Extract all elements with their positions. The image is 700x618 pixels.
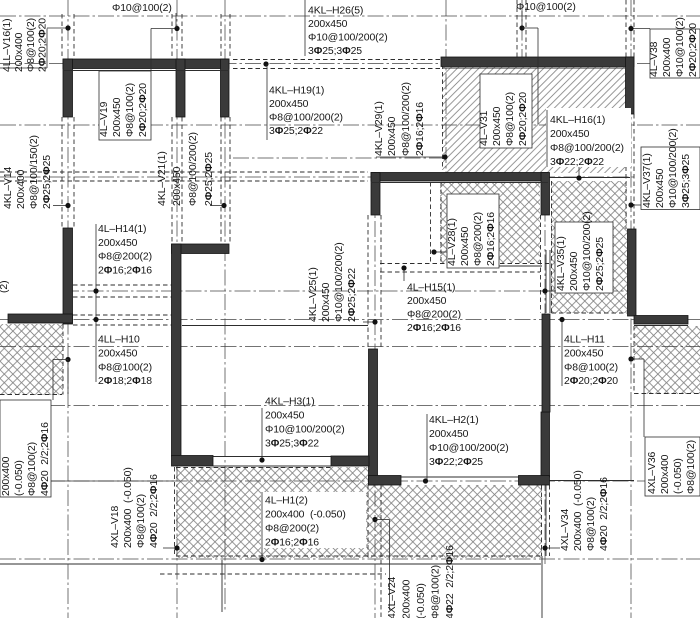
leader 4L-V38 bbox=[631, 28, 650, 30]
svg-text:3Φ22;2Φ25: 3Φ22;2Φ25 bbox=[429, 457, 483, 468]
wall: top-left room right bbox=[221, 59, 230, 117]
svg-text:4Φ22 2/2;2Φ16: 4Φ22 2/2;2Φ16 bbox=[445, 545, 456, 618]
beam 4L-H14 edges y=285/297 bbox=[73, 284, 172, 286]
solid drop line x=542 bottom bbox=[541, 556, 543, 618]
vertical beam dashes x=174/182 bottom (hatch left boundary) bbox=[174, 467, 176, 556]
svg-text:Φ8@100/200(2): Φ8@100/200(2) bbox=[550, 143, 624, 154]
svg-text:Φ10@100/200(2): Φ10@100/200(2) bbox=[308, 33, 388, 44]
svg-text:200x450: 200x450 bbox=[98, 238, 138, 249]
thin top line of H3 y=177.5 bbox=[549, 177, 630, 179]
leader left hatch bbox=[65, 357, 70, 362]
grid line V2 (x=177) bbox=[176, 0, 178, 618]
vertical beam dashes x=221/230 below room bbox=[220, 117, 222, 244]
leader 4LL-H11 bbox=[561, 320, 563, 386]
svg-text:4KL–V29(1): 4KL–V29(1) bbox=[374, 101, 385, 156]
grid line V7 (x=545) bbox=[544, 181, 546, 564]
hatch region H2 cross (4L-V28 slab) bbox=[440, 182, 540, 263]
svg-text:Φ8@100(2): Φ8@100(2) bbox=[431, 565, 442, 618]
wall: top-left room left bbox=[63, 59, 73, 117]
hatch H2 bottom solid bbox=[493, 265, 542, 267]
beam label 4XL-V24 (rotated) bbox=[387, 545, 456, 618]
svg-text:4KL–H2(1): 4KL–H2(1) bbox=[429, 415, 479, 426]
solid segment y=480.5 right bbox=[549, 480, 634, 482]
svg-text:200x450: 200x450 bbox=[387, 116, 398, 156]
vertical dash x=442.5 (H1 left boundary) bbox=[442, 57, 444, 170]
grid line K (y=559) bbox=[0, 558, 700, 560]
vertical beam dashes x=221/230 top bbox=[220, 14, 222, 59]
door line 4KL-H3 room bottom y=456.5/466 bbox=[213, 456, 331, 458]
svg-text:4XL–V34: 4XL–V34 bbox=[560, 508, 571, 551]
beam label 4KL-H16(1) bbox=[550, 115, 624, 168]
beam label 4L-H15(1) bbox=[407, 283, 461, 335]
beam 4LL-H10 edges y=315/325 bbox=[73, 314, 172, 316]
wall: center room right (x=541) bbox=[541, 412, 550, 477]
svg-text:4LL–H10: 4LL–H10 bbox=[98, 335, 140, 346]
wall: x=542 mid segment bbox=[542, 314, 550, 412]
leader phi10 top-right bbox=[521, 11, 523, 28]
svg-text:Φ8@200(2): Φ8@200(2) bbox=[473, 212, 484, 266]
svg-text:Φ8@200(2): Φ8@200(2) bbox=[265, 524, 319, 535]
svg-text:200x450: 200x450 bbox=[655, 168, 666, 208]
leader 4KL-V21 bbox=[210, 205, 224, 207]
wall: top-left room top beam bbox=[63, 59, 229, 69]
leader 4KL-H2 bbox=[426, 414, 428, 481]
svg-text:Φ8@100/200(2): Φ8@100/200(2) bbox=[269, 113, 343, 124]
svg-text:Φ10@100/200(2): Φ10@100/200(2) bbox=[334, 242, 345, 322]
svg-text:200x400 (-0.050): 200x400 (-0.050) bbox=[265, 510, 346, 521]
svg-text:200x400 (-0.050): 200x400 (-0.050) bbox=[573, 470, 584, 551]
grid line I (y=405.5) bbox=[0, 405, 700, 407]
svg-text:Φ8@100(2): Φ8@100(2) bbox=[586, 497, 597, 551]
svg-text:3Φ25;2Φ22: 3Φ25;2Φ22 bbox=[269, 126, 323, 137]
wall: bottom-left horizontal (y=455) bbox=[172, 456, 214, 467]
solid line under strip (y=564) bbox=[0, 563, 541, 565]
svg-text:4Φ20 2/2;2Φ16: 4Φ20 2/2;2Φ16 bbox=[40, 422, 51, 496]
svg-text:200x450: 200x450 bbox=[569, 251, 580, 291]
svg-text:(-0.050): (-0.050) bbox=[416, 583, 427, 618]
beam label 4LL-H11 bbox=[564, 335, 618, 388]
hatch region H5 cross (bottom-right slab) bbox=[634, 326, 700, 394]
wall: hatch right wall upper bbox=[626, 57, 635, 114]
svg-text:4KL–H26(5): 4KL–H26(5) bbox=[308, 6, 363, 17]
svg-text:4KL–V35(1): 4KL–V35(1) bbox=[556, 236, 567, 291]
hatch region H5 white notch bbox=[631, 359, 644, 394]
grid line V3 (x=225) bbox=[224, 0, 226, 612]
svg-text:200x450: 200x450 bbox=[98, 349, 138, 360]
svg-text:3Φ25;3Φ25: 3Φ25;3Φ25 bbox=[308, 46, 362, 57]
svg-text:Φ8@100(2): Φ8@100(2) bbox=[136, 494, 147, 548]
svg-text:Φ10@100/200(2): Φ10@100/200(2) bbox=[668, 128, 679, 208]
dashed line y=574 bbox=[160, 573, 386, 575]
svg-text:Φ10@100(2): Φ10@100(2) bbox=[675, 17, 686, 77]
thin line under top-left beam bbox=[64, 70, 229, 72]
leader 4XL-V24 bbox=[372, 517, 377, 522]
svg-text:200x450: 200x450 bbox=[429, 429, 469, 440]
svg-text:Φ8@100(2): Φ8@100(2) bbox=[686, 440, 697, 494]
svg-text:4L–H15(1): 4L–H15(1) bbox=[407, 283, 455, 294]
svg-text:200x450: 200x450 bbox=[112, 97, 123, 137]
svg-text:200x450: 200x450 bbox=[407, 296, 447, 307]
vertical dashes x=626/634 middle bbox=[625, 114, 627, 229]
leader 4XL-V36 bbox=[628, 356, 633, 361]
svg-text:4Φ20 2/2;2Φ16: 4Φ20 2/2;2Φ16 bbox=[599, 477, 610, 551]
svg-text:4XL–V36: 4XL–V36 bbox=[647, 451, 658, 494]
grid line D (y=158) bbox=[233, 157, 446, 159]
wall: 4L-H14 room top bbox=[172, 244, 230, 254]
hatch region H1 diagonal (4L-V31 slab) bbox=[443, 67, 626, 173]
svg-text:4KL–H19(1): 4KL–H19(1) bbox=[269, 86, 324, 97]
svg-text:2Φ16;2Φ16: 2Φ16;2Φ16 bbox=[415, 102, 426, 156]
beam label 4LL-H10 bbox=[98, 335, 152, 388]
hatch region H6a cross (bottom strip left) bbox=[176, 467, 368, 558]
beam label 4L-V31 (rotated) bbox=[479, 92, 529, 146]
svg-text:200x450: 200x450 bbox=[308, 19, 348, 30]
grid line V8 (x=631) bbox=[630, 0, 632, 618]
svg-text:200x400: 200x400 bbox=[402, 579, 413, 618]
svg-text:2Φ20;2Φ20: 2Φ20;2Φ20 bbox=[138, 83, 149, 137]
wall: right horizontal (y=316) bbox=[634, 316, 688, 325]
svg-text:2Φ20;2Φ20: 2Φ20;2Φ20 bbox=[564, 376, 618, 387]
svg-text:200x400: 200x400 bbox=[660, 454, 671, 494]
svg-text:Φ8@200(2): Φ8@200(2) bbox=[98, 252, 152, 263]
leader 4KL-V35 bbox=[545, 290, 556, 292]
svg-text:4KL–V25(1): 4KL–V25(1) bbox=[308, 267, 319, 322]
leader 4L-H15 bbox=[403, 268, 405, 281]
beam label 4KL-V25(1) (rotated) bbox=[308, 242, 358, 322]
wall: left horizontal wing bbox=[8, 314, 73, 323]
svg-text:4KL–V21(1): 4KL–V21(1) bbox=[157, 151, 168, 206]
wall: top-left room mid stub bbox=[176, 59, 185, 117]
box 4XL-V36 bbox=[645, 437, 700, 496]
box 4L-H1 bbox=[261, 492, 366, 548]
solid drop line x=222 bottom bbox=[221, 560, 223, 612]
beam label bottom-left 200x400 (rotated) bbox=[1, 422, 51, 496]
leader 4KL-H3 bbox=[261, 408, 263, 460]
svg-text:4LL–V16(1): 4LL–V16(1) bbox=[2, 18, 13, 72]
svg-text:200x450: 200x450 bbox=[564, 349, 604, 360]
wall: center room bottom (y=476) bbox=[369, 476, 402, 486]
svg-text:200x400: 200x400 bbox=[16, 169, 27, 209]
beam label 4L-H14(1) bbox=[98, 224, 152, 276]
beam edge dashes: top beam center span y=59.5/68.5 bbox=[233, 59, 441, 61]
thin line under hatch top beam bbox=[443, 67, 625, 69]
beam label 4KL-H2(1) bbox=[429, 415, 509, 468]
grid line V6 (x=522) bbox=[521, 0, 523, 59]
vertical dashes x=626/634 top bbox=[625, 0, 627, 59]
wall: mid beam (y=173) bbox=[371, 173, 548, 182]
box 4L-V28 bbox=[447, 194, 499, 268]
svg-text:Φ8@100(2): Φ8@100(2) bbox=[27, 442, 38, 496]
svg-text:200x400: 200x400 bbox=[1, 456, 12, 496]
wall: mid vertical long (x=172) bbox=[172, 244, 182, 456]
thin line under right wall y=325.5 bbox=[634, 325, 688, 327]
svg-text:2Φ18;2Φ18: 2Φ18;2Φ18 bbox=[98, 376, 152, 387]
svg-text:Φ10@100(2): Φ10@100(2) bbox=[516, 2, 576, 13]
svg-text:Φ8@100/200(2): Φ8@100/200(2) bbox=[188, 132, 199, 206]
svg-text:Φ8@100(2): Φ8@100(2) bbox=[564, 363, 618, 374]
hatch region H6b cross (bottom strip right) bbox=[368, 485, 542, 558]
svg-text:2Φ25;2Φ25: 2Φ25;2Φ25 bbox=[42, 155, 53, 209]
svg-text:Φ8@100/200(2): Φ8@100/200(2) bbox=[401, 82, 412, 156]
beam label 4LL-V16 (rotated) bbox=[2, 18, 49, 72]
vertical beam dashes x=172/182 middle bbox=[171, 117, 173, 244]
box 4KL-V37 bbox=[641, 147, 700, 210]
H7 boundary dashes bbox=[0, 394, 62, 396]
svg-text:4L–V28(1): 4L–V28(1) bbox=[447, 218, 458, 266]
svg-text:4XL–V18: 4XL–V18 bbox=[110, 505, 121, 548]
box 4KL-H16 bbox=[546, 108, 631, 167]
svg-text:Φ8@100/150(2): Φ8@100/150(2) bbox=[29, 135, 40, 209]
grid line F (y=291) bbox=[63, 290, 634, 292]
H5 boundary dashes bbox=[633, 326, 635, 394]
beam label 4XL-V34 (rotated) bbox=[560, 470, 610, 551]
beam label (2) tail (rotated) bbox=[0, 281, 10, 293]
beam label 4L-V38 (rotated) bbox=[649, 17, 699, 77]
beam label 4XL-V36 (rotated) bbox=[647, 440, 697, 494]
svg-text:Φ8@200(2): Φ8@200(2) bbox=[407, 310, 461, 321]
beam label 4KL-V29(1) (rotated) bbox=[374, 82, 426, 156]
svg-text:2Φ20;2Φ20: 2Φ20;2Φ20 bbox=[518, 92, 529, 146]
svg-text:Φ10@100(2): Φ10@100(2) bbox=[112, 3, 172, 14]
grid line A (y=16) bbox=[0, 15, 700, 17]
grid line C (y=125) bbox=[0, 124, 700, 126]
thin line under mid beam bbox=[371, 182, 548, 184]
svg-text:4L–V31: 4L–V31 bbox=[479, 110, 490, 146]
hatch region H3 cross (4KL-V35 slab) bbox=[551, 181, 627, 313]
beam label 4L-V19 (rotated) bbox=[99, 83, 149, 137]
vertical dashes x=517/526 top bbox=[516, 0, 518, 59]
wall: center room bottom right wing bbox=[519, 476, 550, 486]
grid line G (y=319.5) bbox=[0, 319, 700, 321]
svg-text:4KL–H3(1): 4KL–H3(1) bbox=[265, 397, 315, 408]
door line 4KL-H2 room bottom y=477 bbox=[401, 476, 519, 478]
svg-text:Φ10@100/200(2): Φ10@100/200(2) bbox=[265, 425, 345, 436]
beam label 4KL-V21(1) (rotated) bbox=[157, 132, 215, 206]
leader 4KL-H16 bbox=[578, 167, 580, 178]
wall: stub below mid beam left bbox=[371, 173, 380, 216]
leader bottom-left box bbox=[51, 480, 174, 482]
beam label 4KL-H19(1) bbox=[269, 86, 343, 138]
svg-text:4LL–H11: 4LL–H11 bbox=[564, 335, 605, 346]
box bottom-left 200x400 bbox=[0, 400, 51, 497]
grid line J (y=481) bbox=[0, 480, 700, 482]
grid line H (y=346.5) bbox=[0, 346, 700, 348]
solid shaft lines x=546/550 bbox=[545, 250, 547, 313]
leader 4KL-V37 bbox=[631, 204, 641, 206]
leader phi10 top-left bbox=[175, 13, 177, 28]
svg-text:Φ8@100(2): Φ8@100(2) bbox=[26, 18, 37, 72]
grid line V4 (x=375) bbox=[374, 172, 376, 618]
svg-text:4KL–V37(1): 4KL–V37(1) bbox=[642, 153, 653, 208]
svg-text:200x400 (-0.050): 200x400 (-0.050) bbox=[123, 467, 134, 548]
leader 4L-H14 dots bbox=[95, 224, 97, 382]
svg-text:(2): (2) bbox=[0, 281, 10, 293]
svg-text:3Φ25;3Φ25: 3Φ25;3Φ25 bbox=[681, 154, 692, 208]
svg-text:200x400: 200x400 bbox=[14, 32, 25, 72]
svg-text:Φ8@100(2): Φ8@100(2) bbox=[505, 92, 516, 146]
svg-text:200x450: 200x450 bbox=[492, 106, 503, 146]
svg-text:200x450: 200x450 bbox=[321, 282, 332, 322]
text border 4KL-H26 bbox=[304, 0, 306, 56]
svg-text:Φ8@100(2): Φ8@100(2) bbox=[98, 363, 152, 374]
beam 4L-H15 edges y=263.5/272 bbox=[380, 263, 549, 265]
svg-text:(-0.050): (-0.050) bbox=[673, 458, 684, 494]
vertical dash x=540.5 (H2 right boundary) bbox=[540, 215, 542, 313]
svg-text:Φ8@100(2): Φ8@100(2) bbox=[125, 83, 136, 137]
leader 4L-V28 bbox=[434, 251, 447, 253]
box 4L-V38 bbox=[650, 29, 700, 78]
leader 4L-H1 bbox=[261, 492, 263, 559]
svg-text:4L–H1(2): 4L–H1(2) bbox=[265, 496, 308, 507]
svg-text:Φ10@100/200(2): Φ10@100/200(2) bbox=[429, 443, 509, 454]
svg-text:2Φ20;2Φ20: 2Φ20;2Φ20 bbox=[688, 23, 699, 77]
room top thin line y=325 bbox=[182, 325, 368, 327]
svg-text:2Φ16;2Φ16: 2Φ16;2Φ16 bbox=[486, 212, 497, 266]
wall: hatch top beam (y=57) bbox=[441, 57, 634, 67]
leader 4XL-V34 bbox=[545, 547, 560, 549]
grid line E (y=177) bbox=[0, 176, 634, 178]
svg-text:2Φ16;2Φ16: 2Φ16;2Φ16 bbox=[98, 265, 152, 276]
beam label 4KL-H3(1) bbox=[265, 397, 345, 450]
svg-text:4Φ20 2/2;2Φ16: 4Φ20 2/2;2Φ16 bbox=[149, 474, 160, 548]
svg-text:3Φ25;3Φ22: 3Φ25;3Φ22 bbox=[265, 439, 319, 450]
wall: left wall lower segment bbox=[63, 228, 73, 324]
leader top-left box bbox=[47, 27, 68, 29]
svg-text:200x450: 200x450 bbox=[460, 226, 471, 266]
svg-text:3Φ22;2Φ22: 3Φ22;2Φ22 bbox=[550, 157, 604, 168]
beam label 4L-V28(1) (rotated) bbox=[447, 212, 497, 266]
box 4L-V19 bbox=[99, 71, 151, 140]
vertical dash x=551.5 (H3 left boundary) bbox=[551, 181, 553, 313]
svg-text:4L–H14(1): 4L–H14(1) bbox=[98, 224, 146, 235]
beam label 4XL-V18 (rotated) bbox=[110, 467, 160, 548]
vertical beam dashes x=368/381 bbox=[367, 215, 369, 350]
WALLS bbox=[8, 57, 688, 485]
beam edges y=172/181 left span bbox=[0, 171, 368, 173]
beam label 4KL-V14 (rotated) bbox=[3, 135, 53, 209]
svg-text:200x450: 200x450 bbox=[550, 129, 590, 140]
svg-text:2Φ20;2Φ20: 2Φ20;2Φ20 bbox=[38, 18, 49, 72]
svg-text:2Φ25;2Φ25: 2Φ25;2Φ25 bbox=[595, 237, 606, 291]
vertical dashes x=430.5/441 (H2 left boundary) bbox=[430, 182, 432, 263]
svg-text:200x450: 200x450 bbox=[269, 99, 309, 110]
hoop label top-right bbox=[516, 2, 576, 13]
box top-left 4LL-V16 bbox=[0, 29, 47, 69]
svg-text:2Φ25;2Φ25: 2Φ25;2Φ25 bbox=[204, 152, 215, 206]
svg-text:4KL–V14: 4KL–V14 bbox=[3, 166, 14, 209]
svg-text:Φ10@100/200(2): Φ10@100/200(2) bbox=[582, 211, 593, 291]
beam label 4KL-V37(1) (rotated) bbox=[642, 128, 692, 208]
vertical beam dashes x=62/74 door gap bbox=[61, 117, 63, 228]
wall: center room bottom left wing bbox=[331, 456, 369, 466]
svg-text:2Φ25;2Φ22: 2Φ25;2Φ22 bbox=[347, 268, 358, 322]
box 4KL-V35 bbox=[555, 222, 613, 293]
svg-text:4L–V19: 4L–V19 bbox=[99, 101, 110, 137]
H6 boundary dashes bbox=[176, 467, 331, 469]
leader 4XL-V18 bbox=[163, 547, 177, 549]
svg-text:200x450: 200x450 bbox=[265, 411, 305, 422]
leader 4L-V19 bbox=[151, 28, 177, 30]
hatch region H7 cross (left slab) bbox=[0, 324, 63, 395]
svg-text:2Φ16;2Φ16: 2Φ16;2Φ16 bbox=[265, 538, 319, 549]
svg-text:2Φ16;2Φ16: 2Φ16;2Φ16 bbox=[407, 323, 461, 334]
leader 4KL-V29 bbox=[376, 156, 445, 158]
leader 4KL-V25 bbox=[363, 321, 375, 323]
vertical beam dashes x=172/182 top bbox=[171, 14, 173, 59]
hoop label top-left bbox=[112, 3, 172, 14]
grid line B (y=63.5) bbox=[0, 63, 700, 65]
box 4L-V31 bbox=[480, 74, 532, 148]
svg-text:200x450: 200x450 bbox=[172, 166, 183, 206]
beam label 4KL-V35(1) (rotated) bbox=[556, 211, 606, 291]
leader 4KL-H19 bbox=[263, 61, 268, 66]
svg-text:200x400: 200x400 bbox=[662, 37, 673, 77]
svg-text:4KL–H16(1): 4KL–H16(1) bbox=[550, 115, 605, 126]
leader 4KL-V14 bbox=[53, 205, 68, 207]
beam label 4KL-H26(5) bbox=[308, 6, 388, 58]
wall: center room left (x=368) bbox=[369, 349, 378, 485]
vertical beam dashes x=62/74 top bbox=[61, 14, 63, 59]
grid line V1 (x=68) bbox=[67, 0, 69, 618]
svg-text:4XL–V24: 4XL–V24 bbox=[387, 576, 398, 618]
wall: stub below mid beam right bbox=[541, 173, 550, 216]
beam label 4L-H1(2) bbox=[265, 496, 346, 549]
svg-text:4L–V38: 4L–V38 bbox=[649, 41, 660, 77]
wall: right wall lower (x=628) bbox=[628, 229, 637, 316]
grid line V5 (x=446) bbox=[445, 0, 447, 180]
svg-text:(-0.050): (-0.050) bbox=[14, 460, 25, 496]
H3 bottom boundary dash bbox=[552, 312, 628, 314]
